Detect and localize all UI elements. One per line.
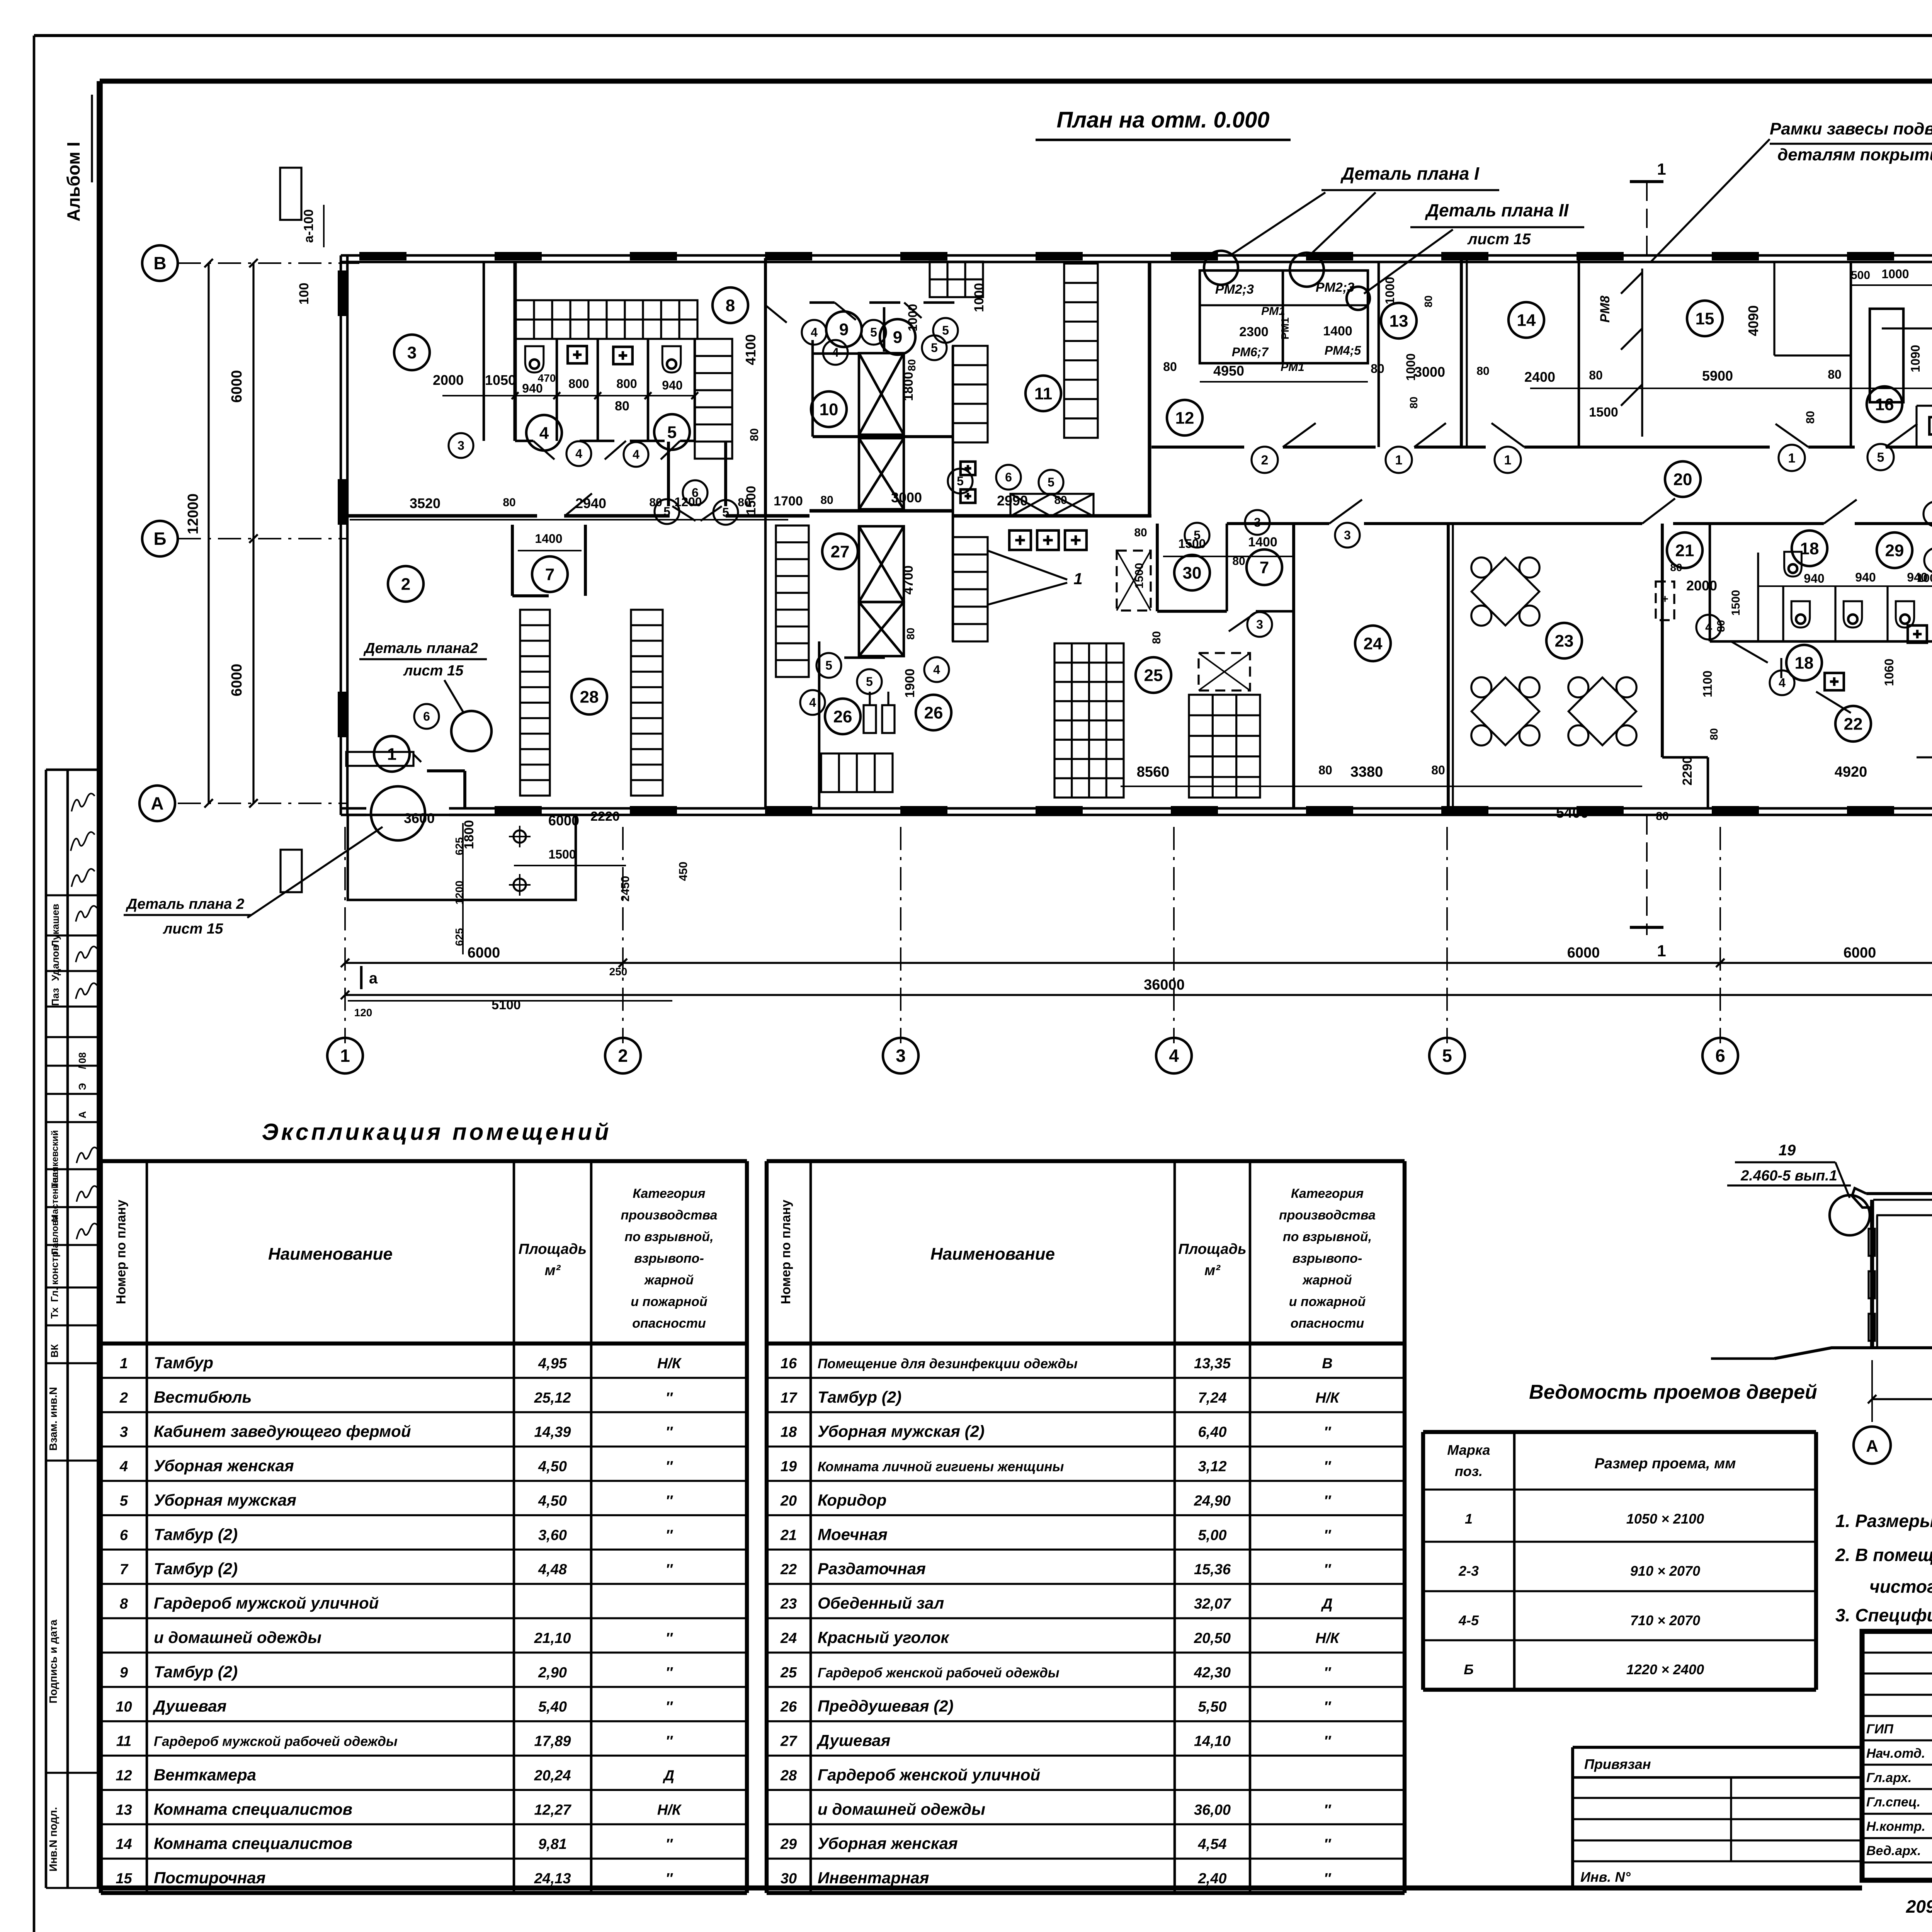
svg-text:Уборная мужская: Уборная мужская [154, 1491, 296, 1509]
svg-text:Тх: Тх [49, 1307, 60, 1319]
svg-text:опасности: опасности [1291, 1316, 1364, 1331]
svg-text:Гл. констр.: Гл. констр. [49, 1248, 60, 1302]
svg-text:2.460-5 вып.1: 2.460-5 вып.1 [1740, 1168, 1837, 1184]
svg-text:5,50: 5,50 [1198, 1699, 1227, 1715]
svg-text:по взрывной,: по взрывной, [1283, 1230, 1372, 1244]
svg-text:2,90: 2,90 [538, 1665, 567, 1681]
svg-text:19: 19 [1779, 1142, 1796, 1159]
svg-text:2: 2 [119, 1390, 128, 1406]
svg-text:3: 3 [1254, 515, 1261, 529]
svg-text:1: 1 [387, 745, 396, 764]
svg-text:80: 80 [1422, 295, 1434, 307]
svg-text:3: 3 [1344, 528, 1351, 542]
svg-text:12,27: 12,27 [534, 1802, 571, 1818]
svg-text:/ 08: / 08 [77, 1052, 88, 1069]
svg-text:Преддушевая (2): Преддушевая (2) [818, 1697, 954, 1715]
svg-text:Гл.спец.: Гл.спец. [1866, 1795, 1920, 1810]
svg-text:по взрывной,: по взрывной, [624, 1230, 713, 1244]
svg-text:5: 5 [1877, 450, 1884, 465]
svg-text:80: 80 [1589, 368, 1603, 382]
svg-text:26: 26 [833, 707, 852, 726]
svg-text:14,39: 14,39 [534, 1424, 571, 1440]
svg-text:1400: 1400 [1323, 324, 1352, 338]
svg-text:14: 14 [116, 1836, 132, 1852]
svg-text:+: + [1662, 593, 1668, 605]
svg-text:910 × 2070: 910 × 2070 [1630, 1563, 1700, 1579]
svg-text:Моечная: Моечная [818, 1525, 888, 1543]
svg-text:12000: 12000 [185, 493, 201, 534]
svg-text:9: 9 [120, 1665, 128, 1681]
svg-text:2: 2 [1261, 453, 1269, 468]
svg-text:Н/К: Н/К [1315, 1390, 1340, 1406]
svg-text:25,12: 25,12 [534, 1390, 571, 1406]
svg-text:1: 1 [1657, 942, 1666, 960]
svg-text:3000: 3000 [891, 490, 922, 505]
svg-text:Деталь плана 2: Деталь плана 2 [126, 896, 244, 912]
svg-text:13: 13 [116, 1802, 132, 1818]
svg-text:26: 26 [924, 703, 943, 722]
svg-text:940: 940 [522, 381, 543, 395]
svg-text:опасности: опасности [632, 1316, 706, 1331]
svg-text:Рамки завесы подвесить к зак: Рамки завесы подвесить к закладным [1770, 119, 1932, 138]
svg-text:″: ″ [1324, 1459, 1332, 1475]
svg-text:1500: 1500 [1178, 537, 1206, 551]
svg-text:″: ″ [665, 1871, 673, 1887]
svg-text:6: 6 [120, 1527, 128, 1543]
svg-text:Марка: Марка [1447, 1442, 1490, 1458]
svg-text:Постирочная: Постирочная [154, 1869, 265, 1887]
svg-text:″: ″ [665, 1424, 673, 1440]
svg-text:лист 15: лист 15 [1467, 231, 1531, 248]
svg-text:Наименование: Наименование [930, 1245, 1055, 1264]
svg-text:80: 80 [1163, 360, 1177, 374]
svg-text:2450: 2450 [619, 876, 632, 902]
svg-text:Взам. инв.N: Взам. инв.N [47, 1387, 59, 1451]
svg-text:27: 27 [831, 542, 850, 561]
svg-text:Тамбур (2): Тамбур (2) [154, 1525, 238, 1543]
svg-text:940: 940 [662, 378, 682, 392]
svg-text:1400: 1400 [535, 532, 562, 546]
svg-text:22: 22 [1844, 714, 1863, 733]
svg-text:Инвентарная: Инвентарная [818, 1869, 929, 1887]
svg-text:Деталь плана2: Деталь плана2 [363, 640, 478, 656]
svg-text:2300: 2300 [1239, 325, 1269, 339]
svg-text:Гардероб мужской уличной: Гардероб мужской уличной [154, 1594, 379, 1612]
svg-text:4: 4 [539, 423, 549, 442]
svg-text:а-100: а-100 [301, 209, 316, 243]
svg-text:80: 80 [615, 399, 629, 413]
svg-text:17: 17 [781, 1390, 798, 1406]
svg-text:2940: 2940 [575, 495, 606, 511]
svg-text:4: 4 [832, 345, 839, 359]
svg-text:20,24: 20,24 [534, 1767, 571, 1784]
svg-text:2: 2 [618, 1046, 628, 1066]
svg-text:80: 80 [503, 496, 515, 509]
svg-text:120: 120 [354, 1007, 372, 1019]
svg-text:а: а [369, 970, 378, 987]
svg-text:2: 2 [401, 575, 410, 594]
svg-text:5900: 5900 [1702, 368, 1733, 384]
svg-text:80: 80 [1408, 396, 1420, 408]
svg-text:Деталь плана I: Деталь плана I [1340, 163, 1480, 184]
svg-text:1000: 1000 [1881, 267, 1909, 281]
svg-text:Гардероб женской рабочей одежд: Гардероб женской рабочей одежды [818, 1665, 1060, 1680]
svg-text:80: 80 [906, 359, 918, 371]
svg-text:8: 8 [726, 296, 735, 315]
svg-text:″: ″ [1324, 1699, 1332, 1715]
svg-text:6: 6 [423, 709, 430, 723]
svg-text:Н/К: Н/К [1315, 1630, 1340, 1646]
svg-text:6000: 6000 [1567, 945, 1600, 961]
svg-text:15: 15 [116, 1871, 132, 1887]
svg-text:5,00: 5,00 [1198, 1527, 1227, 1543]
svg-text:450: 450 [677, 862, 690, 881]
svg-text:Комната специалистов: Комната специалистов [154, 1834, 352, 1852]
svg-text:5: 5 [1048, 475, 1054, 489]
svg-text:9,81: 9,81 [538, 1836, 567, 1852]
svg-text:710 × 2070: 710 × 2070 [1630, 1612, 1700, 1628]
svg-text:Н/К: Н/К [657, 1355, 682, 1372]
svg-text:РМ8: РМ8 [1598, 296, 1612, 323]
svg-text:940: 940 [1855, 570, 1876, 584]
svg-text:23: 23 [780, 1596, 797, 1612]
svg-text:28: 28 [580, 687, 599, 706]
svg-text:3520: 3520 [410, 495, 440, 511]
svg-text:″: ″ [1324, 1493, 1332, 1509]
svg-text:1000: 1000 [972, 283, 986, 312]
svg-text:24,13: 24,13 [534, 1871, 571, 1887]
svg-text:6000: 6000 [468, 945, 500, 961]
svg-text:Категория: Категория [633, 1186, 705, 1201]
svg-text:13: 13 [1389, 311, 1408, 330]
svg-text:20,50: 20,50 [1194, 1630, 1231, 1646]
svg-text:ВК: ВК [49, 1344, 60, 1358]
svg-text:19: 19 [781, 1459, 797, 1475]
svg-text:5: 5 [120, 1493, 128, 1509]
svg-text:10: 10 [820, 400, 838, 419]
svg-text:1: 1 [1657, 160, 1666, 178]
svg-text:80: 80 [1431, 763, 1445, 777]
svg-text:25: 25 [780, 1665, 797, 1681]
svg-text:″: ″ [1324, 1561, 1332, 1578]
svg-text:1050 × 2100: 1050 × 2100 [1626, 1511, 1704, 1527]
svg-text:Лукашев: Лукашев [49, 904, 61, 947]
svg-text:″: ″ [665, 1561, 673, 1578]
svg-text:22: 22 [780, 1561, 797, 1578]
svg-text:24: 24 [780, 1630, 797, 1646]
svg-text:2000: 2000 [433, 372, 464, 388]
svg-text:1: 1 [120, 1355, 128, 1372]
svg-text:4,48: 4,48 [538, 1561, 567, 1578]
svg-text:36,00: 36,00 [1194, 1802, 1231, 1818]
svg-text:8: 8 [120, 1596, 128, 1612]
svg-text:Удалов: Удалов [49, 945, 61, 981]
svg-text:Номер по плану: Номер по плану [779, 1200, 793, 1304]
svg-text:Кабинет заведующего фермой: Кабинет заведующего фермой [154, 1422, 411, 1440]
svg-text:27: 27 [780, 1733, 798, 1750]
svg-text:1500: 1500 [1133, 563, 1146, 589]
svg-text:250: 250 [609, 966, 628, 978]
svg-text:3. Спецификация дверных бл: 3. Спецификация дверных блоков дана на л… [1835, 1605, 1932, 1625]
svg-text:м²: м² [1204, 1262, 1221, 1279]
svg-text:Тамбур (2): Тамбур (2) [818, 1388, 901, 1406]
svg-text:1800: 1800 [901, 372, 916, 401]
svg-text:и домашней одежды: и домашней одежды [818, 1800, 985, 1818]
svg-text:и пожарной: и пожарной [1289, 1294, 1366, 1309]
svg-text:и домашней одежды: и домашней одежды [154, 1628, 321, 1646]
svg-text:1220 × 2400: 1220 × 2400 [1626, 1662, 1704, 1677]
svg-text:42,30: 42,30 [1194, 1665, 1231, 1681]
svg-text:Уборная женская: Уборная женская [818, 1834, 958, 1852]
svg-text:Площадь: Площадь [519, 1241, 587, 1257]
svg-text:5: 5 [825, 658, 832, 672]
svg-text:32,07: 32,07 [1194, 1596, 1231, 1612]
svg-text:Привязан: Привязан [1584, 1756, 1651, 1772]
svg-text:4,95: 4,95 [538, 1355, 567, 1372]
svg-text:″: ″ [1324, 1424, 1332, 1440]
svg-text:2400: 2400 [1524, 369, 1555, 385]
svg-text:1500: 1500 [548, 847, 576, 861]
svg-text:29: 29 [780, 1836, 797, 1852]
svg-text:3600: 3600 [404, 810, 435, 826]
svg-text:″: ″ [665, 1390, 673, 1406]
svg-text:80: 80 [748, 428, 761, 441]
svg-text:″: ″ [665, 1630, 673, 1646]
svg-text:9: 9 [893, 328, 902, 347]
svg-text:жарной: жарной [644, 1273, 694, 1287]
svg-text:20967-01 10: 20967-01 10 [1906, 1896, 1932, 1917]
svg-text:10: 10 [116, 1699, 132, 1715]
svg-text:производства: производства [1279, 1208, 1376, 1223]
svg-text:9: 9 [839, 320, 849, 339]
svg-text:″: ″ [665, 1527, 673, 1543]
svg-text:″: ″ [665, 1493, 673, 1509]
svg-text:80: 80 [1804, 411, 1817, 423]
svg-text:100: 100 [297, 283, 311, 305]
svg-text:″: ″ [665, 1836, 673, 1852]
svg-text:2220: 2220 [590, 809, 620, 824]
svg-text:Б: Б [153, 529, 166, 549]
svg-text:80: 80 [1134, 526, 1147, 539]
svg-text:5: 5 [1194, 528, 1201, 542]
svg-text:15,36: 15,36 [1194, 1561, 1231, 1578]
svg-text:15: 15 [1696, 309, 1714, 328]
svg-text:21,10: 21,10 [534, 1630, 571, 1646]
svg-text:5: 5 [722, 505, 729, 519]
svg-text:800: 800 [568, 377, 589, 391]
svg-text:А: А [151, 793, 163, 813]
svg-text:4: 4 [575, 447, 582, 461]
svg-text:РМ6;7: РМ6;7 [1232, 345, 1269, 359]
svg-text:7: 7 [120, 1561, 129, 1578]
svg-text:м²: м² [545, 1262, 561, 1279]
svg-text:жарной: жарной [1302, 1273, 1352, 1287]
svg-text:80: 80 [905, 628, 917, 639]
svg-text:17,89: 17,89 [534, 1733, 571, 1750]
svg-text:Раздаточная: Раздаточная [818, 1560, 926, 1578]
svg-text:6000: 6000 [1844, 945, 1876, 961]
svg-text:23: 23 [1555, 631, 1574, 650]
svg-text:20: 20 [1673, 470, 1692, 489]
svg-text:6000: 6000 [229, 370, 245, 403]
svg-text:5: 5 [957, 474, 964, 488]
svg-text:2. В помещениях 11 и 25 п: 2. В помещениях 11 и 25 пунктиром отмече… [1835, 1545, 1932, 1565]
svg-text:2-3: 2-3 [1458, 1563, 1479, 1579]
svg-text:80: 80 [738, 496, 750, 509]
svg-text:4: 4 [633, 447, 639, 461]
svg-text:7,24: 7,24 [1198, 1390, 1227, 1406]
svg-text:20: 20 [780, 1493, 797, 1509]
svg-text:1060: 1060 [1882, 658, 1896, 686]
svg-text:12: 12 [1175, 408, 1194, 427]
svg-text:РМ1: РМ1 [1261, 305, 1285, 318]
svg-text:1090: 1090 [1908, 345, 1922, 372]
svg-text:940: 940 [1804, 571, 1824, 585]
svg-text:Категория: Категория [1291, 1186, 1364, 1201]
svg-text:4: 4 [119, 1459, 128, 1475]
svg-text:″: ″ [665, 1733, 673, 1750]
svg-text:Комната специалистов: Комната специалистов [154, 1800, 352, 1818]
svg-text:1500: 1500 [1589, 405, 1618, 420]
svg-text:деталям покрытия ( низ. на отм: деталям покрытия ( низ. на отм. 2.100) [1777, 145, 1932, 164]
svg-text:5: 5 [866, 675, 873, 689]
svg-text:6: 6 [692, 486, 699, 500]
svg-text:7: 7 [1260, 558, 1269, 577]
svg-text:″: ″ [1324, 1802, 1332, 1818]
svg-text:5400: 5400 [1556, 805, 1589, 821]
svg-text:чистого и грязного белья (: чистого и грязного белья ( см. технологи… [1869, 1577, 1932, 1597]
svg-text:производства: производства [621, 1208, 717, 1223]
svg-text:4090: 4090 [1745, 305, 1761, 336]
svg-text:РМ1: РМ1 [1279, 317, 1291, 339]
svg-text:″: ″ [1324, 1871, 1332, 1887]
svg-text:3: 3 [1256, 617, 1263, 631]
svg-text:500: 500 [1851, 269, 1870, 282]
svg-text:5: 5 [931, 341, 938, 355]
svg-text:24,90: 24,90 [1194, 1493, 1231, 1509]
svg-text:5100: 5100 [492, 998, 521, 1012]
svg-text:1900: 1900 [903, 668, 917, 698]
svg-text:Э: Э [77, 1083, 88, 1090]
svg-text:Венткамера: Венткамера [154, 1765, 256, 1784]
svg-text:21: 21 [1675, 541, 1694, 560]
svg-text:80: 80 [1656, 810, 1668, 823]
svg-text:1400: 1400 [1248, 535, 1277, 549]
svg-text:36000: 36000 [1144, 977, 1185, 993]
svg-text:4920: 4920 [1835, 764, 1867, 780]
svg-text:Мастенина: Мастенина [50, 1172, 60, 1222]
svg-text:поз.: поз. [1455, 1463, 1483, 1479]
svg-text:14: 14 [1517, 311, 1536, 330]
svg-text:80: 80 [820, 494, 833, 507]
svg-text:А: А [1866, 1437, 1878, 1456]
svg-text:Паз: Паз [49, 988, 61, 1006]
svg-text:Площадь: Площадь [1178, 1241, 1246, 1257]
svg-text:11: 11 [116, 1733, 131, 1750]
svg-text:4: 4 [1779, 676, 1786, 690]
svg-text:6: 6 [1715, 1046, 1725, 1066]
svg-text:Деталь плана II: Деталь плана II [1425, 200, 1569, 220]
svg-text:3: 3 [896, 1046, 906, 1066]
svg-text:800: 800 [616, 377, 637, 391]
svg-text:3: 3 [457, 439, 464, 452]
svg-text:1: 1 [1395, 453, 1403, 468]
svg-text:″: ″ [1324, 1836, 1332, 1852]
svg-text:Б: Б [1464, 1662, 1474, 1677]
svg-text:3: 3 [120, 1424, 128, 1440]
svg-text:80: 80 [1708, 728, 1720, 740]
svg-text:″: ″ [1324, 1665, 1332, 1681]
svg-text:В: В [1322, 1355, 1332, 1372]
svg-text:Помещение для дезинфекции одеж: Помещение для дезинфекции одежды [818, 1356, 1078, 1371]
svg-text:Тамбур (2): Тамбур (2) [154, 1560, 238, 1578]
svg-text:5: 5 [942, 323, 949, 337]
svg-text:План на отм. 0.000: План на отм. 0.000 [1056, 107, 1269, 133]
svg-text:ГИП: ГИП [1866, 1722, 1894, 1736]
svg-text:8560: 8560 [1137, 764, 1170, 780]
svg-text:Инв. N°: Инв. N° [1580, 1869, 1631, 1885]
svg-text:Гл.арх.: Гл.арх. [1866, 1770, 1912, 1785]
svg-text:4,50: 4,50 [538, 1493, 567, 1509]
svg-text:и пожарной: и пожарной [631, 1294, 707, 1309]
svg-text:18: 18 [781, 1424, 797, 1440]
svg-text:РМ1: РМ1 [1281, 361, 1304, 374]
svg-text:1050: 1050 [485, 372, 516, 388]
svg-text:4: 4 [1169, 1046, 1179, 1066]
svg-text:4950: 4950 [1213, 363, 1244, 379]
svg-text:11: 11 [1034, 384, 1053, 403]
svg-text:28: 28 [780, 1767, 797, 1784]
svg-text:Душевая: Душевая [816, 1731, 890, 1750]
svg-text:Душевая: Душевая [153, 1697, 226, 1715]
svg-text:Уборная мужская (2): Уборная мужская (2) [818, 1422, 985, 1440]
svg-text:1: 1 [1504, 453, 1512, 468]
svg-text:Красный уголок: Красный уголок [818, 1628, 949, 1646]
svg-text:29: 29 [1885, 541, 1904, 560]
svg-text:Уборная женская: Уборная женская [154, 1457, 294, 1475]
svg-text:3380: 3380 [1350, 764, 1383, 780]
svg-text:Н/К: Н/К [657, 1802, 682, 1818]
svg-text:30: 30 [1183, 563, 1202, 582]
svg-text:6: 6 [1005, 470, 1012, 484]
svg-text:18: 18 [1795, 653, 1814, 672]
svg-text:18: 18 [1800, 539, 1819, 558]
svg-text:″: ″ [1324, 1527, 1332, 1543]
svg-text:1: 1 [340, 1046, 350, 1066]
svg-text:80: 80 [1828, 367, 1842, 381]
svg-text:Тамбур: Тамбур [154, 1354, 213, 1372]
svg-text:12: 12 [116, 1767, 132, 1784]
svg-text:1000: 1000 [1383, 277, 1397, 304]
svg-text:6000: 6000 [548, 813, 579, 828]
svg-text:1500: 1500 [1730, 590, 1742, 616]
svg-text:Ведомость проемов дверей: Ведомость проемов дверей [1529, 1381, 1817, 1403]
svg-text:1: 1 [1788, 451, 1796, 466]
svg-text:80: 80 [1150, 631, 1163, 644]
svg-text:Обеденный зал: Обеденный зал [818, 1594, 944, 1612]
svg-text:4,50: 4,50 [538, 1459, 567, 1475]
svg-text:В: В [153, 253, 166, 273]
svg-text:1: 1 [1465, 1511, 1473, 1527]
svg-text:26: 26 [780, 1699, 797, 1715]
svg-text:1000: 1000 [1917, 572, 1932, 585]
svg-text:4: 4 [1705, 620, 1712, 634]
svg-text:″: ″ [665, 1665, 673, 1681]
svg-text:Н.контр.: Н.контр. [1866, 1819, 1925, 1834]
svg-text:25: 25 [1144, 666, 1163, 685]
svg-text:3,12: 3,12 [1198, 1459, 1227, 1475]
svg-text:21: 21 [780, 1527, 797, 1543]
